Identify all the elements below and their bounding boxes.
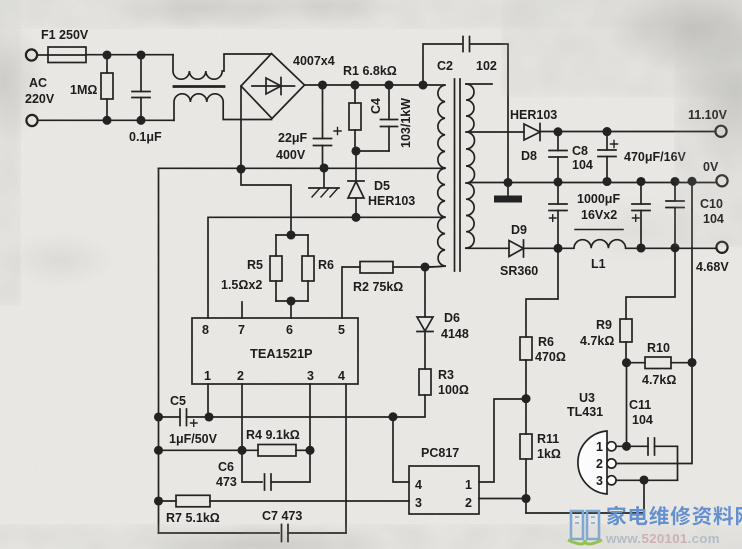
wire TL431 pin3 — [616, 479, 677, 481]
node — [352, 214, 359, 221]
wire pin5 riser — [342, 267, 360, 318]
pin bubble 1 — [607, 442, 616, 451]
diode D5 — [355, 151, 357, 181]
node — [603, 178, 610, 185]
wire bridge minus down — [240, 86, 242, 169]
node — [504, 179, 511, 186]
wire R7 row to PC817 pin3 — [210, 500, 409, 502]
wire secondary top stub — [466, 83, 492, 85]
wire pin2 opto — [479, 498, 526, 500]
node — [287, 297, 294, 304]
negative rail — [159, 167, 445, 169]
node — [352, 147, 359, 154]
wire +rail — [305, 84, 445, 86]
wire pin1 riser to R9R10 — [626, 363, 628, 447]
node — [623, 359, 630, 366]
left rail — [158, 168, 160, 533]
diode D8 HER103 — [470, 131, 524, 133]
node — [637, 178, 644, 185]
resistor R9 4.7k — [620, 319, 632, 342]
fuse F1 — [48, 47, 86, 63]
node — [522, 495, 529, 502]
wire line pin2 row — [159, 449, 259, 451]
node — [319, 81, 326, 88]
capacitor C7 473 — [159, 532, 280, 534]
resistor R10 4.7k — [627, 362, 646, 364]
wire primary bottom to R2 node — [425, 266, 445, 267]
node — [688, 359, 695, 366]
capacitor C6 473 — [242, 450, 262, 482]
node — [640, 476, 647, 483]
capacitor 1000uF-a — [557, 182, 559, 204]
node — [137, 51, 144, 58]
resistor R2 75k — [360, 262, 393, 274]
node — [637, 244, 644, 251]
wire — [37, 54, 48, 56]
wire bottom rail to TL431 pin3 — [526, 480, 644, 513]
wire pin1 stub — [207, 384, 209, 417]
optocoupler PC817 — [409, 466, 479, 514]
wire TL431 pin1 — [616, 445, 648, 447]
capacitor 0.1uF — [140, 55, 142, 92]
transformer core — [455, 79, 461, 271]
node — [238, 447, 245, 454]
node — [603, 128, 610, 135]
node — [137, 117, 144, 124]
bridge rectifier 4007x4 — [241, 54, 305, 119]
wire pin1 opto riser — [479, 399, 526, 482]
node — [688, 178, 695, 185]
inductor L1 — [558, 240, 717, 249]
logo text — [607, 506, 742, 526]
choke winding top — [173, 54, 272, 79]
wire pin2 stub — [241, 384, 243, 450]
wire pin4 opto — [393, 417, 409, 482]
node — [103, 117, 110, 124]
pin bubble 3 — [607, 476, 616, 485]
choke winding bottom — [174, 94, 272, 121]
capacitor C2 — [423, 44, 462, 85]
wire — [38, 119, 174, 121]
node — [623, 443, 630, 450]
0V rail — [470, 182, 717, 184]
terminal AC-L — [26, 49, 37, 60]
node — [205, 413, 212, 420]
wire Vcc line — [209, 416, 393, 418]
node — [421, 263, 428, 270]
terminal 4.68V — [716, 242, 727, 253]
node — [554, 178, 561, 185]
wire R1-C4 join — [355, 150, 389, 152]
wire pin7 stub — [241, 302, 243, 318]
node — [287, 231, 294, 238]
wire R9 dogleg — [626, 248, 675, 319]
resistor R11 1k — [520, 434, 532, 459]
capacitor C5 — [159, 416, 181, 418]
capacitor 22uF/400V — [322, 85, 324, 139]
wire R5R6 top/bottom joins — [276, 235, 308, 301]
line under 16Vx2 — [575, 229, 623, 231]
resistor R5 — [275, 235, 277, 256]
node — [389, 413, 396, 420]
capacitor C4 — [388, 85, 390, 120]
capacitor 1000uF-b — [640, 182, 642, 205]
wire pin8 to winding — [208, 217, 444, 318]
capacitor 470uF/16V — [606, 132, 608, 150]
terminal AC-N — [26, 115, 37, 126]
resistor R7 5.1k — [159, 500, 177, 502]
node — [320, 164, 327, 171]
wire pin6 stub — [290, 301, 292, 318]
wire pin4 stub — [345, 384, 347, 533]
wire — [86, 54, 173, 56]
wire R6sec dogleg — [526, 248, 558, 337]
logo watermark — [568, 506, 742, 546]
paper noise overlay — [0, 0, 1, 1]
node — [155, 447, 162, 454]
resistor R6 470 — [520, 337, 532, 360]
resistor R6 (primary) — [307, 235, 309, 256]
node — [419, 81, 426, 88]
node — [671, 178, 678, 185]
node — [554, 245, 561, 252]
capacitor C11 104 — [647, 438, 649, 455]
wire to R5R6 — [241, 169, 291, 235]
node — [385, 81, 392, 88]
node — [237, 165, 244, 172]
resistor R4 9.1k — [258, 445, 296, 457]
wire R10 right to TL431 pin2 — [617, 363, 693, 464]
node — [306, 447, 313, 454]
shunt reg U3 TL431 — [578, 431, 607, 494]
wire pin3 stub — [309, 384, 311, 450]
diode D6 4148 — [424, 267, 426, 317]
node — [351, 81, 358, 88]
transformer secondary winding — [466, 84, 475, 248]
resistor 1M — [106, 55, 108, 73]
node — [103, 51, 110, 58]
capacitor C10 — [674, 182, 676, 202]
ground (secondary bar) — [507, 183, 509, 196]
terminal 11.10V — [715, 126, 726, 137]
wire 0V to R10 column — [691, 181, 693, 362]
resistor R3 100 — [419, 369, 431, 395]
resistor R1 — [354, 85, 356, 103]
node — [671, 244, 678, 251]
pin bubble 2 — [607, 459, 616, 468]
book icon — [571, 511, 599, 539]
node — [554, 128, 561, 135]
node — [155, 497, 162, 504]
choke core — [174, 85, 224, 88]
transformer primary winding — [438, 85, 445, 266]
terminal 0V — [716, 175, 727, 186]
diode D9 SR360 — [466, 247, 509, 249]
IC U1 TEA1521P — [192, 318, 358, 384]
capacitor C8 — [557, 132, 559, 151]
node — [155, 413, 162, 420]
ground (chassis) — [323, 168, 325, 187]
node — [522, 395, 529, 402]
